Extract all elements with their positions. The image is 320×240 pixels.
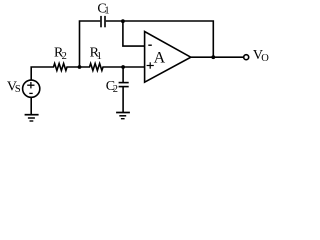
svg-text:1: 1: [104, 5, 109, 16]
svg-text:2: 2: [62, 51, 67, 62]
svg-text:O: O: [261, 53, 269, 64]
svg-text:2: 2: [113, 84, 118, 95]
svg-text:S: S: [15, 84, 21, 95]
svg-text:A: A: [154, 49, 166, 66]
svg-text:1: 1: [97, 51, 102, 62]
